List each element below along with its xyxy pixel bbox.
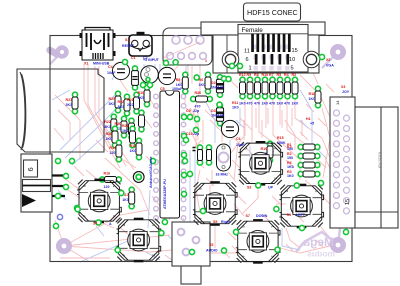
- resistor R: [292, 77, 298, 99]
- svg-text:R10: R10: [262, 73, 269, 77]
- pushbutton S6: [114, 215, 164, 265]
- svg-text:470: 470: [269, 102, 275, 106]
- resistor row labels: [239, 73, 298, 106]
- connector X6 bar: [23, 180, 51, 192]
- resistor R24: [129, 118, 135, 140]
- board outline: [50, 36, 352, 262]
- svg-text:1K0: 1K0: [122, 129, 129, 133]
- svg-text:15: 15: [345, 199, 351, 205]
- resistor R3: [298, 171, 320, 177]
- svg-text:470: 470: [254, 102, 260, 106]
- svg-text:A: A: [109, 222, 112, 226]
- resistor R: [130, 126, 136, 148]
- svg-text:R5: R5: [277, 73, 282, 77]
- resistor R17: [129, 187, 135, 209]
- VGA label box: [244, 3, 301, 21]
- pad ring: [57, 214, 62, 219]
- svg-text:470: 470: [195, 105, 201, 109]
- resistor R: [262, 77, 268, 99]
- resistor R: [270, 77, 276, 99]
- svg-text:16 MHz: 16 MHz: [216, 173, 229, 177]
- svg-text:14: 14: [335, 100, 340, 105]
- svg-text:6: 6: [26, 167, 35, 171]
- svg-text:1K0: 1K0: [130, 149, 137, 153]
- resistor R20: [121, 116, 127, 138]
- svg-text:JOY: JOY: [342, 90, 350, 94]
- resistor R22: [111, 114, 117, 136]
- transistor T1: [141, 66, 159, 84]
- resistor R: [247, 77, 253, 99]
- svg-text:10uF: 10uF: [236, 143, 245, 147]
- svg-text:VGA: VGA: [326, 64, 334, 68]
- svg-text:RESET: RESET: [122, 44, 135, 48]
- svg-text:C1: C1: [131, 56, 136, 60]
- resistor R1: [298, 144, 320, 150]
- watermark: [303, 235, 335, 259]
- svg-text:C10: C10: [186, 132, 193, 136]
- VGA pin labels: [244, 48, 298, 72]
- svg-text:R9: R9: [247, 73, 252, 77]
- wire: [50, 52, 62, 64]
- resistor R23: [124, 94, 130, 116]
- IC U1 body: [160, 91, 180, 218]
- resistor R26: [191, 96, 213, 102]
- via pads: [53, 54, 348, 254]
- svg-text:120: 120: [104, 185, 110, 189]
- pushbutton S2: [74, 176, 124, 226]
- svg-text:3K3: 3K3: [109, 102, 116, 106]
- svg-text:R21: R21: [127, 98, 134, 102]
- svg-text:AUDIO: AUDIO: [206, 249, 218, 253]
- svg-text:S4: S4: [287, 213, 291, 217]
- svg-text:1K0: 1K0: [287, 174, 294, 178]
- svg-text:R13: R13: [130, 144, 137, 148]
- svg-text:modus: modus: [307, 249, 335, 259]
- capacitor C4: [112, 62, 129, 79]
- svg-text:1K5: 1K5: [138, 96, 145, 100]
- svg-text:HDF15 CONEC: HDF15 CONEC: [247, 8, 298, 17]
- connector X6 body: [21, 154, 52, 212]
- svg-text:R28: R28: [106, 132, 113, 136]
- svg-text:R25: R25: [109, 97, 116, 101]
- svg-text:120: 120: [109, 151, 115, 155]
- svg-text:1K0: 1K0: [199, 83, 206, 87]
- diode D3: [216, 103, 223, 126]
- LED D1: [133, 172, 144, 183]
- svg-text:3K3: 3K3: [104, 125, 111, 129]
- svg-text:Right: Right: [221, 220, 231, 224]
- svg-text:1N4148: 1N4148: [211, 86, 224, 90]
- mini-USB X1: [80, 28, 116, 61]
- svg-text:R23: R23: [118, 100, 125, 104]
- svg-text:1K0: 1K0: [232, 106, 239, 110]
- resistor R6: [298, 162, 320, 168]
- resistor R21: [134, 92, 140, 114]
- svg-text:R5: R5: [176, 78, 181, 82]
- svg-text:6: 6: [246, 57, 249, 63]
- svg-text:R4: R4: [284, 73, 289, 77]
- svg-text:JOY STICK: JOY STICK: [378, 151, 382, 169]
- svg-text:ArduinoVGAGame: ArduinoVGAGame: [149, 156, 153, 188]
- svg-text:R8: R8: [254, 73, 259, 77]
- svg-text:S3: S3: [247, 186, 251, 190]
- svg-text:R24: R24: [122, 124, 129, 128]
- reset button S1: [129, 32, 152, 56]
- svg-text:1N4148: 1N4148: [211, 114, 224, 118]
- svg-text:1K0: 1K0: [309, 97, 316, 101]
- joystick flange inner line: [355, 107, 398, 228]
- capacitor C6: [221, 120, 238, 137]
- mounting hole BR: [330, 237, 346, 253]
- svg-text:R12: R12: [239, 73, 246, 77]
- svg-text:D3: D3: [211, 109, 216, 113]
- svg-text:C6: C6: [236, 137, 241, 141]
- footprint K1 pads: [167, 36, 207, 59]
- svg-text:R11: R11: [232, 101, 238, 105]
- resistor R14: [116, 140, 122, 162]
- svg-text:1K0: 1K0: [287, 165, 294, 169]
- crystal Q1: [217, 144, 231, 171]
- screw ring top: [333, 100, 346, 113]
- svg-text:LEFT: LEFT: [296, 213, 306, 217]
- diode D2: [216, 75, 223, 98]
- svg-text:S6: S6: [93, 222, 97, 226]
- svg-text:C9: C9: [186, 109, 191, 113]
- mounting hole TR: [330, 44, 346, 60]
- resistor R: [139, 110, 145, 132]
- svg-text:UP: UP: [268, 186, 274, 190]
- footprint K1: [163, 28, 212, 65]
- svg-text:1K0: 1K0: [292, 102, 299, 106]
- connector X6 pin6 box: [24, 160, 38, 177]
- svg-text:X1: X1: [84, 62, 88, 66]
- resistor R: [277, 77, 283, 99]
- svg-text:X3: X3: [341, 85, 345, 89]
- IC U1 notch: [166, 91, 174, 95]
- resistor R19: [267, 141, 273, 163]
- pushbutton S7: [233, 216, 283, 266]
- VGA female box: [238, 25, 308, 73]
- svg-text:R19: R19: [138, 91, 145, 95]
- svg-text:S1: S1: [125, 38, 129, 42]
- svg-text:3K3: 3K3: [66, 103, 73, 107]
- capacitor C8: [206, 145, 211, 165]
- screw ring bottom: [333, 213, 346, 226]
- connector X6 pins: [52, 176, 65, 197]
- svg-text:1K0: 1K0: [262, 102, 269, 106]
- svg-text:100K: 100K: [277, 141, 286, 145]
- svg-text:5: 5: [291, 66, 294, 72]
- resistor R2: [298, 153, 320, 159]
- svg-text:C2: C2: [143, 56, 148, 60]
- resistor R5: [182, 72, 188, 94]
- svg-text:3K3: 3K3: [118, 105, 125, 109]
- resistor R25: [115, 91, 121, 113]
- svg-text:22p: 22p: [193, 109, 200, 113]
- capacitor C7: [197, 145, 202, 165]
- svg-text:2K0: 2K0: [106, 137, 113, 141]
- wire: [185, 66, 187, 88]
- svg-text:10: 10: [289, 57, 295, 63]
- pushbutton S4: [277, 181, 327, 231]
- svg-text:H1: H1: [306, 117, 311, 121]
- VGA housing inner lines: [227, 35, 305, 73]
- joystick connector body: [330, 97, 355, 228]
- resistor R: [240, 77, 246, 99]
- svg-text:Mega: Mega: [303, 235, 334, 249]
- audio jack pads: [178, 229, 200, 256]
- svg-text:C4: C4: [108, 65, 113, 69]
- mounting hole TL: [45, 45, 69, 59]
- IC U1 pads: [154, 94, 186, 220]
- VGA top band: [201, 22, 325, 35]
- svg-text:R2: R2: [292, 73, 297, 77]
- resistor R: [255, 77, 261, 99]
- svg-text:R22: R22: [104, 120, 111, 124]
- svg-text:K2: K2: [287, 145, 292, 149]
- VGA screw hole left: [222, 51, 239, 68]
- resistor R19: [144, 85, 150, 107]
- svg-text:10uF: 10uF: [107, 71, 116, 75]
- SD card edge: [20, 72, 26, 150]
- svg-text:22p: 22p: [193, 132, 200, 136]
- audio jack body: [172, 222, 210, 266]
- svg-text:ATMEGA328P-PU: ATMEGA328P-PU: [163, 179, 167, 209]
- tick marks: [193, 148, 196, 151]
- svg-text:X2: X2: [326, 58, 330, 62]
- svg-text:100uF: 100uF: [172, 87, 183, 91]
- VGA housing: [213, 35, 319, 73]
- pushbutton S3: [236, 138, 286, 188]
- svg-text:1K0: 1K0: [277, 102, 284, 106]
- mounting hole BL: [56, 238, 72, 254]
- svg-text:S5: S5: [213, 220, 217, 224]
- svg-text:R26: R26: [195, 91, 202, 95]
- svg-text:Female: Female: [242, 27, 264, 34]
- capacitor C5: [158, 67, 175, 84]
- joystick flange: [355, 107, 398, 228]
- resistor R28: [112, 126, 118, 148]
- svg-text:DOWN: DOWN: [256, 214, 268, 218]
- svg-text:R14: R14: [109, 146, 116, 150]
- svg-text:R7: R7: [269, 73, 274, 77]
- joystick pin holes: [334, 110, 350, 214]
- VGA pins long row: [251, 34, 290, 53]
- connector X6 polarity mark: [22, 194, 36, 207]
- resistor R6: [205, 72, 211, 94]
- VGA screw hole right: [303, 51, 320, 68]
- svg-text:S7: S7: [246, 214, 250, 218]
- SD card slot: [17, 69, 104, 152]
- svg-text:150: 150: [287, 156, 293, 160]
- svg-text:R16: R16: [104, 172, 111, 176]
- svg-text:R19: R19: [261, 147, 268, 151]
- capacitor C3: [132, 66, 139, 90]
- svg-text:R18: R18: [309, 92, 316, 96]
- VGA pad squares: [254, 45, 290, 71]
- svg-text:X5: X5: [209, 243, 213, 247]
- svg-text:15: 15: [292, 48, 298, 54]
- svg-text:1: 1: [249, 66, 252, 72]
- svg-text:470: 470: [247, 102, 253, 106]
- svg-text:1K0: 1K0: [122, 198, 129, 202]
- svg-text:C5: C5: [160, 87, 165, 91]
- VGA pins short row: [255, 54, 289, 65]
- audio jack stem: [181, 266, 201, 284]
- svg-text:470: 470: [284, 102, 290, 106]
- svg-text:D2: D2: [211, 81, 216, 85]
- svg-text:R15: R15: [277, 136, 284, 140]
- pushbutton S5: [190, 179, 240, 229]
- svg-text:R27: R27: [66, 98, 73, 102]
- svg-text:2K0: 2K0: [127, 103, 134, 107]
- svg-text:1K0: 1K0: [239, 102, 246, 106]
- resistor R: [285, 77, 291, 99]
- resistor R16: [100, 177, 122, 183]
- resistor R27: [72, 92, 78, 114]
- wire: [187, 64, 189, 80]
- resistor R13: [136, 138, 142, 160]
- svg-text:11: 11: [244, 49, 250, 55]
- resistor R18: [315, 86, 321, 108]
- svg-text:+5: +5: [310, 122, 314, 126]
- svg-text:1: 1: [205, 59, 207, 63]
